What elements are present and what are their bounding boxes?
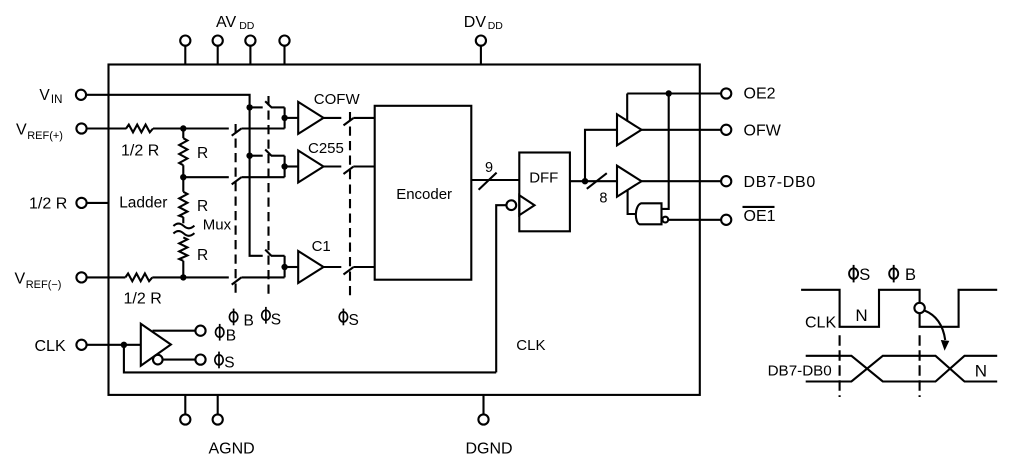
node CLK [121, 342, 127, 348]
label phi B column [229, 309, 237, 326]
svg-text:REF(−): REF(−) [26, 279, 62, 291]
node ladder top [180, 125, 186, 131]
wire VREF(-) to resistor [86, 276, 125, 278]
comparator C255 [298, 151, 323, 183]
CLK waveform [801, 290, 920, 327]
ladder resistor R1 [179, 129, 187, 178]
svg-text:CLK: CLK [805, 315, 836, 332]
svg-text:S: S [349, 312, 359, 329]
wire ladder mid to switch [183, 176, 229, 178]
VREF(-) pin [76, 272, 86, 282]
CLK label [35, 338, 66, 355]
label phi S column [262, 307, 270, 324]
switch VIN C1 [265, 250, 284, 256]
DB7-DB0 pin [721, 176, 731, 186]
comparator C1 input tee [281, 256, 298, 278]
wire OE1 [668, 219, 721, 221]
svg-text:9: 9 [485, 160, 493, 176]
AGND pin 1 [180, 395, 190, 425]
wire DB output [642, 180, 722, 182]
svg-text:B: B [905, 266, 916, 284]
label R2 [197, 198, 208, 215]
DFF block [519, 153, 570, 232]
comparator COFW [298, 102, 323, 134]
OE1 pin [721, 215, 731, 225]
label OE2 [744, 86, 776, 103]
bus encoder to DFF [471, 179, 519, 181]
svg-text:V: V [16, 122, 27, 139]
label Ladder [119, 195, 167, 212]
svg-text:B: B [244, 313, 254, 330]
svg-text:REF(+): REF(+) [27, 130, 63, 142]
svg-text:CLK: CLK [35, 338, 66, 355]
svg-text:OE2: OE2 [744, 86, 776, 103]
DGND pin [478, 395, 488, 425]
AVDD pin 1 [180, 36, 190, 65]
svg-text:V: V [15, 271, 26, 288]
AVDD pin 2 [213, 36, 223, 65]
svg-text:DD: DD [239, 20, 255, 32]
svg-text:OFW: OFW [744, 122, 782, 139]
svg-text:Ladder: Ladder [119, 195, 167, 212]
svg-text:1/2 R: 1/2 R [29, 196, 67, 213]
wire resistor to ladder node [153, 127, 229, 129]
svg-text:C1: C1 [312, 238, 331, 255]
svg-text:DGND: DGND [466, 441, 513, 458]
wire OE2 [627, 92, 721, 94]
label CLK inner [516, 337, 545, 354]
node OE2 [666, 90, 672, 96]
AVDD label [216, 14, 255, 32]
DVDD label [464, 14, 503, 32]
VIN pin [76, 90, 86, 100]
AVDD pin 3 [245, 36, 255, 65]
wire DFF output to OFW buffer [585, 130, 617, 181]
resistor 1/2R bottom [125, 274, 152, 282]
switch VREF(+) [232, 129, 285, 136]
timing label phi B [889, 265, 898, 283]
label R1 [197, 145, 208, 162]
switch VREF(-) [232, 277, 285, 284]
svg-text:OE1: OE1 [744, 208, 776, 225]
label Mux [203, 217, 232, 234]
svg-text:1/2 R: 1/2 R [124, 290, 162, 307]
label phi B clock [216, 324, 224, 341]
node VIN COFW [246, 104, 252, 110]
label AGND [209, 441, 255, 458]
wire VIN branch COFW [250, 106, 263, 108]
label 1/2 R top [121, 142, 159, 159]
wire CLK to DFF [124, 345, 496, 373]
label OFW [744, 122, 782, 139]
label DFF [529, 170, 558, 187]
svg-text:V: V [39, 87, 50, 104]
1/2R pin [76, 198, 108, 208]
label COFW [314, 91, 361, 108]
svg-text:COFW: COFW [314, 91, 361, 108]
1/2 R pin label [29, 196, 67, 213]
node DFF output [582, 178, 588, 184]
node ladder bottom [180, 274, 186, 280]
svg-text:IN: IN [51, 94, 63, 106]
DB bus waveform line A [806, 356, 998, 382]
label DGND [466, 441, 513, 458]
bus slash 8 [587, 173, 607, 189]
svg-text:DFF: DFF [529, 170, 558, 187]
svg-text:R: R [197, 145, 208, 162]
svg-text:DV: DV [464, 14, 487, 31]
phiS output terminal [195, 355, 205, 365]
timing label N first [855, 306, 867, 325]
label DB7-DB0 [744, 174, 816, 191]
svg-text:C255: C255 [308, 140, 344, 157]
DB bus waveform line B [806, 356, 998, 382]
svg-text:DB7-DB0: DB7-DB0 [744, 174, 816, 191]
bus slash 9 [479, 173, 497, 190]
node ladder mid [180, 174, 186, 180]
phiB output terminal [195, 326, 205, 336]
svg-text:S: S [224, 354, 234, 371]
CLK waveform sample circle [914, 303, 924, 313]
DVDD pin [476, 36, 486, 65]
label Encoder [396, 186, 452, 203]
DFF clock triangle [519, 195, 534, 215]
svg-text:8: 8 [599, 191, 607, 207]
label 8 [599, 191, 607, 207]
wire OE2 enable to OFW buffer [626, 94, 628, 122]
comparator C1 [298, 251, 323, 283]
clock buffer [141, 324, 171, 366]
timing CLK label [805, 315, 836, 332]
break squiggle [173, 224, 194, 236]
NAND gate [636, 203, 662, 224]
svg-text:Mux: Mux [203, 217, 232, 234]
wire DB buffer enable to NAND [628, 190, 636, 214]
ladder resistor R2 [179, 177, 187, 223]
svg-text:DB7-DB0: DB7-DB0 [768, 363, 832, 380]
wire VREF(+) to resistor [86, 127, 126, 129]
bus DFF to output buffers [570, 180, 617, 182]
timing dashed marker 2 [919, 335, 921, 397]
wire OE2 to NAND [662, 94, 669, 209]
encoder block [375, 106, 472, 280]
arrowhead [941, 340, 950, 351]
arrow from sample circle [925, 311, 946, 341]
node VIN C255 [246, 153, 252, 159]
svg-text:AV: AV [216, 14, 236, 31]
label 9 [485, 160, 493, 176]
clock buffer inverting bubble [153, 355, 163, 365]
label OE1 with overline [743, 207, 776, 225]
switch VIN COFW [265, 101, 284, 107]
label phi S output column [339, 309, 347, 326]
label R3 [197, 247, 208, 264]
label C255 [308, 140, 344, 157]
buffer OFW [617, 114, 642, 145]
svg-text:R: R [197, 247, 208, 264]
CLK waveform continued [920, 290, 998, 327]
wire DFF clock to CLK line [496, 205, 506, 372]
AGND pin 2 [213, 395, 223, 425]
svg-text:N: N [855, 306, 867, 325]
NAND bubble [662, 217, 668, 223]
label C1 [312, 238, 331, 255]
VREF(+) pin [76, 123, 86, 133]
label DB7-DB0 timing [768, 363, 832, 380]
ladder resistor R3 [179, 237, 187, 277]
switch ladder mid [232, 177, 285, 184]
svg-text:DD: DD [488, 20, 504, 32]
OFW pin [721, 125, 731, 135]
AVDD pin 4 [279, 36, 289, 65]
timing dashed marker 1 [839, 335, 841, 397]
buffer DB [617, 166, 642, 197]
label phi S clock [215, 352, 223, 369]
svg-text:AGND: AGND [209, 441, 255, 458]
svg-text:1/2 R: 1/2 R [121, 142, 159, 159]
svg-text:S: S [271, 311, 281, 328]
wire phiB output [153, 330, 196, 332]
switch VIN C255 [265, 150, 284, 156]
wire OFW output [642, 129, 722, 131]
wire VIN to comparator column [86, 95, 263, 256]
wire CLK input [86, 344, 141, 346]
wire phiS output [163, 359, 196, 361]
main block outline [109, 65, 700, 395]
switch C1 output [324, 267, 375, 275]
VREF(+) label [16, 122, 63, 143]
dashed control line phiS column [267, 96, 269, 295]
svg-text:N: N [975, 361, 987, 380]
comparator COFW input tee [281, 107, 298, 128]
timing label N second [975, 361, 987, 380]
dashed control line phiB [235, 124, 237, 295]
VREF(-) label [15, 271, 62, 292]
DFF clock bubble [506, 200, 516, 210]
svg-text:R: R [197, 198, 208, 215]
comparator C255 input tee [281, 156, 298, 178]
switch C255 output [324, 167, 375, 175]
label 1/2 R bottom [124, 290, 162, 307]
svg-text:B: B [226, 328, 236, 345]
svg-text:CLK: CLK [516, 337, 545, 354]
resistor 1/2R top [126, 125, 153, 133]
svg-text:Encoder: Encoder [396, 186, 452, 203]
switch COFW output [324, 118, 375, 126]
timing label phi S [849, 265, 858, 283]
svg-text:S: S [859, 266, 870, 284]
CLK pin [76, 340, 86, 350]
wire VIN branch C255 [250, 155, 263, 157]
VIN label [39, 87, 62, 106]
OE2 pin [721, 88, 731, 98]
wire resistor to switch [152, 276, 229, 278]
dashed control line phiS output column [349, 112, 351, 300]
